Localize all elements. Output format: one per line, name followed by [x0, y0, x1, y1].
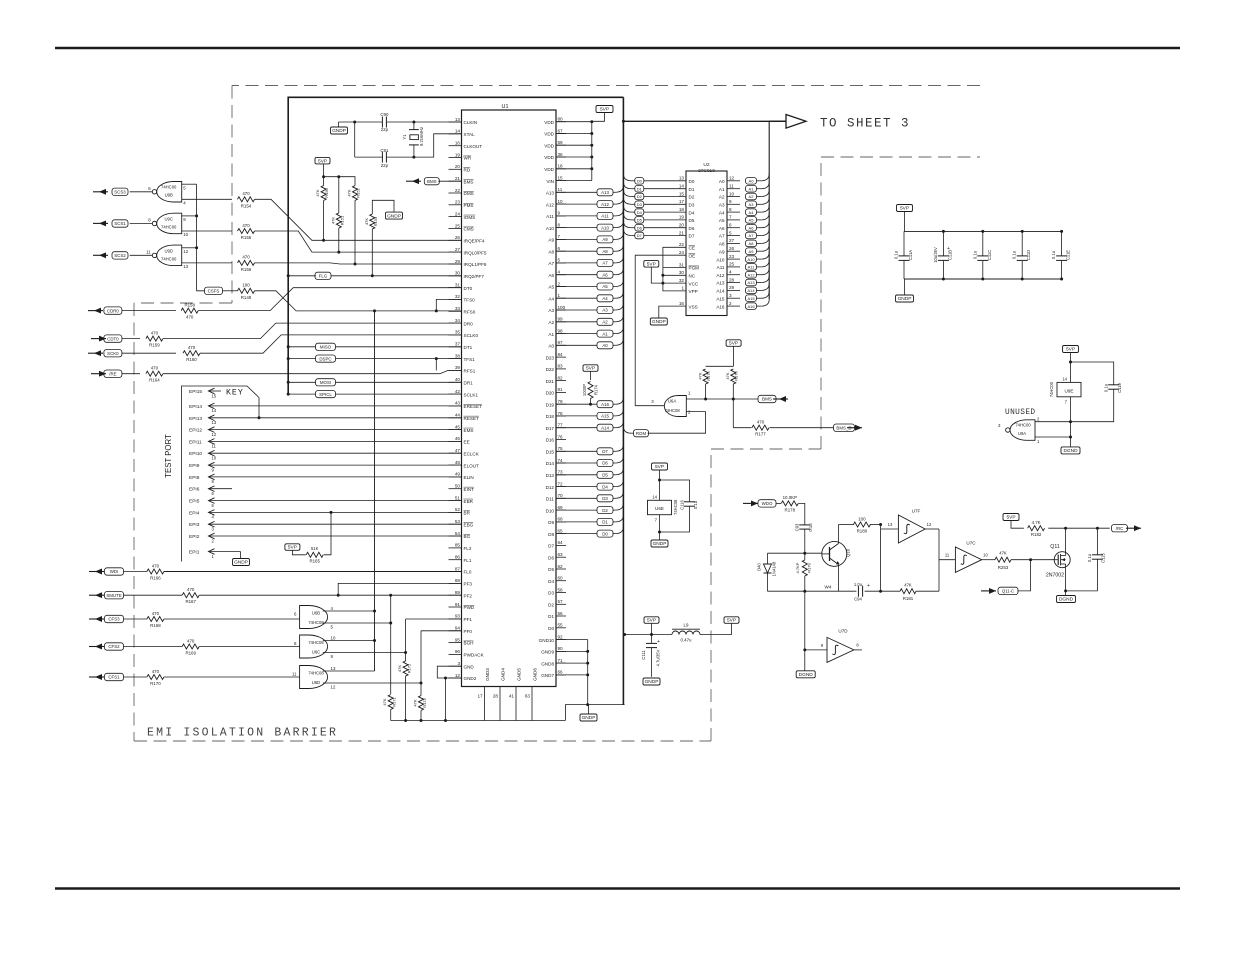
svg-text:SCLK1: SCLK1	[464, 392, 479, 397]
svg-text:74HC08: 74HC08	[308, 620, 324, 625]
svg-text:CLKOUT: CLKOUT	[464, 144, 483, 149]
svg-text:D6: D6	[602, 461, 608, 466]
svg-text:47K: 47K	[698, 372, 703, 379]
svg-text:CSFS: CSFS	[208, 289, 220, 294]
svg-text:A7: A7	[719, 234, 725, 239]
svg-text:470: 470	[187, 587, 195, 592]
svg-text:SMUTE: SMUTE	[106, 593, 121, 598]
svg-text:10: 10	[983, 553, 988, 558]
svg-text:A3: A3	[548, 308, 554, 313]
svg-text:A9: A9	[548, 238, 554, 243]
svg-text:A0: A0	[548, 344, 554, 349]
svg-text:D7: D7	[548, 544, 554, 549]
svg-text:A10: A10	[747, 257, 755, 262]
svg-text:D20: D20	[546, 391, 555, 396]
svg-text:8: 8	[729, 207, 732, 212]
svg-text:EPI14: EPI14	[189, 404, 202, 410]
svg-text:90: 90	[558, 646, 564, 651]
svg-text:GNDP: GNDP	[653, 541, 667, 547]
svg-text:470: 470	[151, 366, 159, 371]
svg-text:ELOUT: ELOUT	[464, 463, 480, 468]
svg-text:R173: R173	[422, 697, 427, 707]
svg-text:A2: A2	[749, 194, 755, 199]
svg-text:15: 15	[212, 393, 217, 398]
svg-text:20: 20	[455, 164, 461, 169]
svg-text:D1: D1	[689, 187, 695, 192]
svg-text:70: 70	[558, 493, 564, 498]
svg-text:5VP: 5VP	[647, 618, 656, 624]
svg-text:0.1u: 0.1u	[1104, 383, 1109, 392]
svg-text:47: 47	[455, 448, 461, 453]
svg-text:R151: R151	[339, 215, 344, 225]
svg-text:12: 12	[331, 685, 336, 690]
svg-text:83: 83	[558, 364, 564, 369]
svg-text:R176: R176	[734, 370, 739, 380]
svg-text:49: 49	[455, 472, 461, 477]
svg-text:100: 100	[558, 305, 566, 310]
svg-text:7: 7	[558, 234, 561, 239]
svg-text:CLKIN: CLKIN	[464, 120, 478, 125]
svg-text:D8: D8	[548, 532, 554, 537]
svg-text:U2: U2	[703, 162, 709, 168]
svg-text:D9: D9	[548, 520, 554, 525]
svg-text:C11E: C11E	[1066, 250, 1071, 260]
svg-text:BR: BR	[464, 511, 471, 516]
svg-text:96: 96	[455, 649, 461, 654]
svg-text:10: 10	[212, 456, 217, 461]
svg-text:UNUSED: UNUSED	[1005, 409, 1035, 417]
svg-text:2N7002: 2N7002	[1046, 573, 1064, 579]
svg-text:L9: L9	[684, 622, 689, 627]
svg-text:84: 84	[558, 352, 564, 357]
svg-text:ERESET: ERESET	[464, 404, 483, 409]
svg-text:A9: A9	[602, 237, 608, 242]
svg-text:SCLK0: SCLK0	[464, 333, 479, 338]
svg-text:13: 13	[183, 264, 188, 269]
svg-text:69: 69	[558, 505, 564, 510]
svg-text:SPICL: SPICL	[319, 392, 332, 397]
svg-text:A15: A15	[601, 414, 609, 419]
svg-text:A5: A5	[749, 218, 755, 223]
svg-text:R177: R177	[755, 432, 766, 437]
svg-text:C115: C115	[1101, 552, 1106, 562]
svg-text:14: 14	[212, 408, 217, 413]
svg-text:94: 94	[455, 626, 461, 631]
svg-text:D3: D3	[602, 496, 608, 501]
svg-text:IRQL0/PF5: IRQL0/PF5	[464, 250, 487, 255]
svg-text:72: 72	[558, 481, 564, 486]
svg-text:GNDP: GNDP	[582, 715, 596, 721]
svg-text:/RE: /RE	[109, 371, 116, 376]
svg-text:9: 9	[558, 211, 561, 216]
svg-text:R180: R180	[857, 529, 868, 534]
svg-text:D0: D0	[602, 531, 608, 536]
svg-text:R149: R149	[241, 295, 252, 300]
svg-text:87: 87	[455, 566, 461, 571]
svg-text:5VP: 5VP	[318, 158, 327, 164]
svg-text:R158: R158	[184, 303, 195, 308]
svg-text:21: 21	[455, 176, 461, 181]
svg-text:VCC: VCC	[689, 281, 699, 286]
svg-text:D6: D6	[548, 555, 554, 560]
svg-text:33: 33	[455, 306, 461, 311]
svg-text:VDD: VDD	[544, 155, 554, 160]
svg-text:77: 77	[558, 423, 564, 428]
svg-text:19: 19	[679, 215, 685, 220]
svg-text:1.0u: 1.0u	[854, 582, 863, 587]
svg-text:+: +	[657, 639, 660, 645]
svg-text:A3: A3	[602, 308, 608, 313]
svg-text:47K: 47K	[382, 698, 387, 705]
svg-text:5VP: 5VP	[647, 262, 656, 268]
svg-text:GND5: GND5	[517, 668, 522, 681]
svg-text:CE: CE	[689, 246, 695, 251]
svg-text:11: 11	[945, 553, 950, 558]
svg-text:32: 32	[679, 278, 685, 283]
svg-text:R153: R153	[373, 216, 378, 226]
svg-text:0.47u: 0.47u	[681, 638, 693, 643]
svg-text:25: 25	[729, 262, 735, 267]
svg-text:C116: C116	[680, 499, 685, 509]
svg-text:D12: D12	[546, 485, 555, 490]
svg-text:74HC00: 74HC00	[161, 256, 177, 261]
svg-text:D4: D4	[637, 210, 643, 215]
svg-text:C94: C94	[854, 597, 862, 602]
svg-text:VIN: VIN	[546, 179, 554, 184]
svg-text:WDI: WDI	[110, 569, 119, 574]
svg-text:0.1u: 0.1u	[894, 250, 899, 259]
svg-text:D1: D1	[602, 520, 608, 525]
svg-text:15: 15	[558, 175, 564, 180]
svg-text:5VP: 5VP	[729, 341, 738, 347]
svg-text:80: 80	[558, 117, 564, 122]
svg-text:52: 52	[455, 507, 461, 512]
svg-text:A13: A13	[546, 191, 555, 196]
svg-text:D1: D1	[637, 186, 643, 191]
svg-text:10: 10	[183, 232, 188, 237]
svg-text:11: 11	[146, 249, 151, 254]
svg-text:XTAL: XTAL	[464, 132, 476, 137]
svg-text:25: 25	[455, 223, 461, 228]
svg-text:34: 34	[455, 318, 461, 323]
svg-text:OE: OE	[689, 253, 696, 258]
svg-text:98: 98	[558, 328, 564, 333]
svg-text:51K: 51K	[311, 546, 319, 551]
svg-text:CFS1: CFS1	[108, 675, 120, 680]
svg-text:14: 14	[455, 129, 461, 134]
svg-text:D10: D10	[546, 508, 555, 513]
svg-text:73: 73	[558, 470, 564, 475]
svg-text:D4: D4	[602, 484, 608, 489]
svg-text:1N4148: 1N4148	[772, 561, 777, 576]
svg-text:R166: R166	[150, 576, 161, 581]
svg-text:D7: D7	[602, 449, 608, 454]
svg-text:EPI2: EPI2	[189, 534, 200, 540]
svg-text:FL0: FL0	[464, 570, 472, 575]
svg-text:A11: A11	[717, 265, 725, 270]
svg-text:A12: A12	[716, 273, 725, 278]
svg-text:EPI13: EPI13	[189, 416, 202, 422]
svg-text:74HC08: 74HC08	[308, 671, 324, 676]
svg-text:0.1u: 0.1u	[972, 250, 977, 259]
svg-text:A2: A2	[719, 195, 725, 200]
svg-text:C119: C119	[1117, 382, 1122, 392]
svg-text:D13: D13	[546, 473, 555, 478]
svg-text:A6: A6	[602, 272, 608, 277]
svg-text:46: 46	[455, 436, 461, 441]
svg-text:W4: W4	[825, 585, 832, 590]
svg-text:27: 27	[729, 238, 735, 243]
svg-text:A1: A1	[602, 331, 608, 336]
svg-text:D6: D6	[689, 226, 695, 231]
svg-text:32: 32	[455, 294, 461, 299]
svg-text:74HC08: 74HC08	[664, 408, 680, 413]
svg-text:470: 470	[242, 191, 250, 196]
svg-text:D5: D5	[689, 218, 695, 223]
svg-text:93: 93	[455, 614, 461, 619]
svg-text:23: 23	[455, 200, 461, 205]
svg-text:GND8: GND8	[541, 661, 554, 666]
svg-text:30: 30	[679, 270, 685, 275]
svg-text:0.1u: 0.1u	[1051, 250, 1056, 259]
svg-text:74: 74	[558, 458, 564, 463]
svg-text:58: 58	[558, 587, 564, 592]
svg-text:EPI8: EPI8	[189, 475, 200, 481]
svg-text:C93: C93	[795, 523, 800, 531]
svg-text:10: 10	[729, 191, 735, 196]
svg-text:16: 16	[455, 141, 461, 146]
svg-text:DR0: DR0	[464, 321, 474, 326]
svg-text:A4: A4	[602, 296, 608, 301]
svg-text:89: 89	[455, 590, 461, 595]
svg-text:R156: R156	[241, 267, 252, 272]
svg-text:CDT0: CDT0	[107, 336, 119, 341]
svg-text:D14: D14	[546, 461, 555, 466]
svg-text:GNDP: GNDP	[652, 319, 666, 325]
svg-text:A4: A4	[749, 210, 755, 215]
svg-text:470: 470	[152, 563, 160, 568]
svg-text:PF2: PF2	[464, 593, 473, 598]
svg-text:91: 91	[455, 602, 461, 607]
svg-text:47K: 47K	[330, 217, 335, 224]
svg-text:R168: R168	[150, 623, 161, 628]
svg-text:22p: 22p	[381, 163, 389, 168]
svg-text:13: 13	[331, 666, 336, 671]
svg-text:MISO: MISO	[320, 345, 332, 350]
svg-text:9: 9	[729, 199, 732, 204]
svg-text:R159: R159	[149, 343, 160, 348]
svg-text:74HC00: 74HC00	[1015, 423, 1031, 428]
svg-text:30: 30	[455, 271, 461, 276]
svg-text:24: 24	[679, 250, 685, 255]
svg-text:2: 2	[729, 301, 732, 306]
svg-text:6: 6	[729, 223, 732, 228]
svg-text:57: 57	[558, 599, 564, 604]
svg-text:A5: A5	[719, 218, 725, 223]
svg-text:36: 36	[558, 152, 564, 157]
svg-text:R150: R150	[324, 187, 329, 197]
svg-text:R182: R182	[1031, 532, 1042, 537]
svg-text:85: 85	[455, 543, 461, 548]
svg-text:12: 12	[212, 432, 217, 437]
svg-text:PGM: PGM	[689, 266, 700, 271]
svg-text:28: 28	[493, 694, 499, 699]
svg-text:DT0: DT0	[464, 286, 473, 291]
svg-text:4.7K: 4.7K	[1032, 520, 1041, 525]
svg-text:C111: C111	[641, 650, 646, 660]
svg-text:PF3: PF3	[464, 582, 473, 587]
svg-text:EPI4: EPI4	[189, 510, 200, 516]
svg-text:D7: D7	[637, 233, 643, 238]
svg-text:47K: 47K	[999, 551, 1007, 556]
svg-text:78: 78	[558, 411, 564, 416]
svg-text:TEST PORT: TEST PORT	[164, 434, 173, 478]
svg-text:48: 48	[455, 460, 461, 465]
svg-text:C91: C91	[380, 148, 389, 153]
svg-text:100: 100	[858, 516, 866, 521]
svg-text:470: 470	[242, 223, 250, 228]
svg-text:DGND: DGND	[1059, 597, 1074, 603]
svg-text:29: 29	[729, 285, 735, 290]
svg-text:U7C: U7C	[966, 541, 976, 546]
svg-text:RFS0: RFS0	[464, 310, 476, 315]
svg-text:68: 68	[558, 517, 564, 522]
svg-text:U9A: U9A	[1018, 431, 1026, 436]
svg-text:86: 86	[455, 555, 461, 560]
svg-text:71: 71	[558, 658, 564, 663]
svg-text:13: 13	[455, 117, 461, 122]
svg-text:40: 40	[455, 377, 461, 382]
svg-text:47K: 47K	[315, 189, 320, 196]
svg-text:SCS1: SCS1	[114, 221, 126, 226]
svg-text:470: 470	[152, 611, 160, 616]
svg-text:D5: D5	[602, 473, 608, 478]
svg-text:74HC08: 74HC08	[673, 499, 678, 515]
svg-text:R179: R179	[807, 562, 812, 572]
svg-text:22p: 22p	[381, 127, 389, 132]
svg-text:47K: 47K	[904, 583, 912, 588]
svg-text:D0: D0	[637, 179, 643, 184]
svg-text:92: 92	[558, 634, 564, 639]
svg-text:14: 14	[1062, 377, 1067, 382]
svg-text:A11: A11	[601, 214, 609, 219]
svg-text:R169: R169	[185, 651, 196, 656]
svg-text:43: 43	[455, 401, 461, 406]
svg-text:74HC00: 74HC00	[161, 224, 177, 229]
svg-text:1000P: 1000P	[582, 384, 587, 396]
svg-text:R253: R253	[998, 565, 1009, 570]
svg-text:U6B: U6B	[312, 611, 320, 616]
svg-text:EE: EE	[464, 440, 470, 445]
svg-text:EPI1: EPI1	[189, 550, 200, 556]
svg-text:A14: A14	[747, 288, 755, 293]
svg-text:PWD: PWD	[464, 605, 475, 610]
svg-text:14: 14	[652, 495, 657, 500]
svg-text:R160: R160	[186, 357, 197, 362]
svg-text:470: 470	[242, 255, 250, 260]
svg-text:8: 8	[558, 222, 561, 227]
svg-text:26: 26	[729, 246, 735, 251]
svg-text:PF1: PF1	[464, 617, 473, 622]
svg-text:DGND: DGND	[1063, 448, 1078, 454]
svg-text:13: 13	[679, 176, 685, 181]
svg-text:A7: A7	[602, 261, 608, 266]
svg-text:7: 7	[729, 215, 732, 220]
svg-text:26: 26	[455, 235, 461, 240]
svg-text:5VP: 5VP	[288, 545, 297, 551]
svg-text:Q11: Q11	[1050, 544, 1060, 550]
svg-text:5VP: 5VP	[1066, 347, 1075, 353]
svg-text:EPI10: EPI10	[189, 451, 202, 457]
svg-text:A13: A13	[716, 281, 725, 286]
svg-text:35: 35	[455, 330, 461, 335]
svg-text:GNDP: GNDP	[234, 560, 248, 566]
svg-text:TFS0: TFS0	[464, 298, 476, 303]
svg-text:5VP: 5VP	[1006, 515, 1015, 521]
svg-text:22: 22	[455, 188, 461, 193]
svg-text:ROM: ROM	[636, 431, 647, 436]
svg-text:C11C: C11C	[987, 250, 992, 260]
svg-text:81: 81	[558, 387, 564, 392]
svg-text:D18: D18	[546, 414, 555, 419]
svg-text:Q10: Q10	[846, 548, 851, 557]
svg-text:VDD: VDD	[544, 167, 554, 172]
svg-text:A6: A6	[719, 226, 725, 231]
svg-text:50: 50	[455, 484, 461, 489]
svg-text:D15: D15	[546, 450, 555, 455]
svg-text:VSS: VSS	[689, 304, 698, 309]
svg-text:U6D: U6D	[312, 680, 320, 685]
svg-text:10.0KP: 10.0KP	[783, 495, 797, 500]
svg-text:59: 59	[558, 140, 564, 145]
svg-text:GND2: GND2	[464, 676, 477, 681]
svg-text:D4: D4	[548, 579, 554, 584]
svg-text:D2: D2	[602, 508, 608, 513]
svg-text:67: 67	[558, 128, 564, 133]
svg-text:IRQ2/PF7: IRQ2/PF7	[464, 274, 485, 279]
svg-text:11: 11	[558, 187, 563, 192]
svg-text:GND: GND	[464, 664, 475, 669]
svg-text:65: 65	[558, 528, 564, 533]
svg-text:1: 1	[681, 286, 684, 291]
svg-text:D17: D17	[546, 426, 555, 431]
svg-text:EPI3: EPI3	[189, 522, 200, 528]
svg-text:11: 11	[292, 672, 297, 677]
svg-text:R170: R170	[150, 681, 161, 686]
svg-text:5: 5	[729, 230, 732, 235]
svg-text:4.7KP: 4.7KP	[795, 562, 800, 573]
svg-text:A8: A8	[719, 242, 725, 247]
svg-text:A0: A0	[602, 343, 608, 348]
svg-text:76: 76	[558, 434, 564, 439]
svg-text:TFS1: TFS1	[464, 357, 476, 362]
svg-text:64: 64	[558, 540, 564, 545]
svg-text:11: 11	[729, 184, 734, 189]
svg-text:VPP: VPP	[689, 289, 698, 294]
svg-text:A5: A5	[602, 284, 608, 289]
svg-text:3: 3	[457, 661, 460, 666]
svg-text:DT1: DT1	[464, 345, 473, 350]
svg-text:PF0: PF0	[464, 629, 473, 634]
svg-text:EMS: EMS	[464, 428, 474, 433]
svg-text:BMS: BMS	[427, 179, 437, 184]
svg-text:470: 470	[757, 420, 765, 425]
svg-text:5VP: 5VP	[900, 206, 909, 212]
svg-text:5VP: 5VP	[727, 618, 736, 624]
svg-text:A4: A4	[548, 296, 554, 301]
svg-text:A15: A15	[747, 296, 755, 301]
svg-text:D0: D0	[548, 626, 554, 631]
